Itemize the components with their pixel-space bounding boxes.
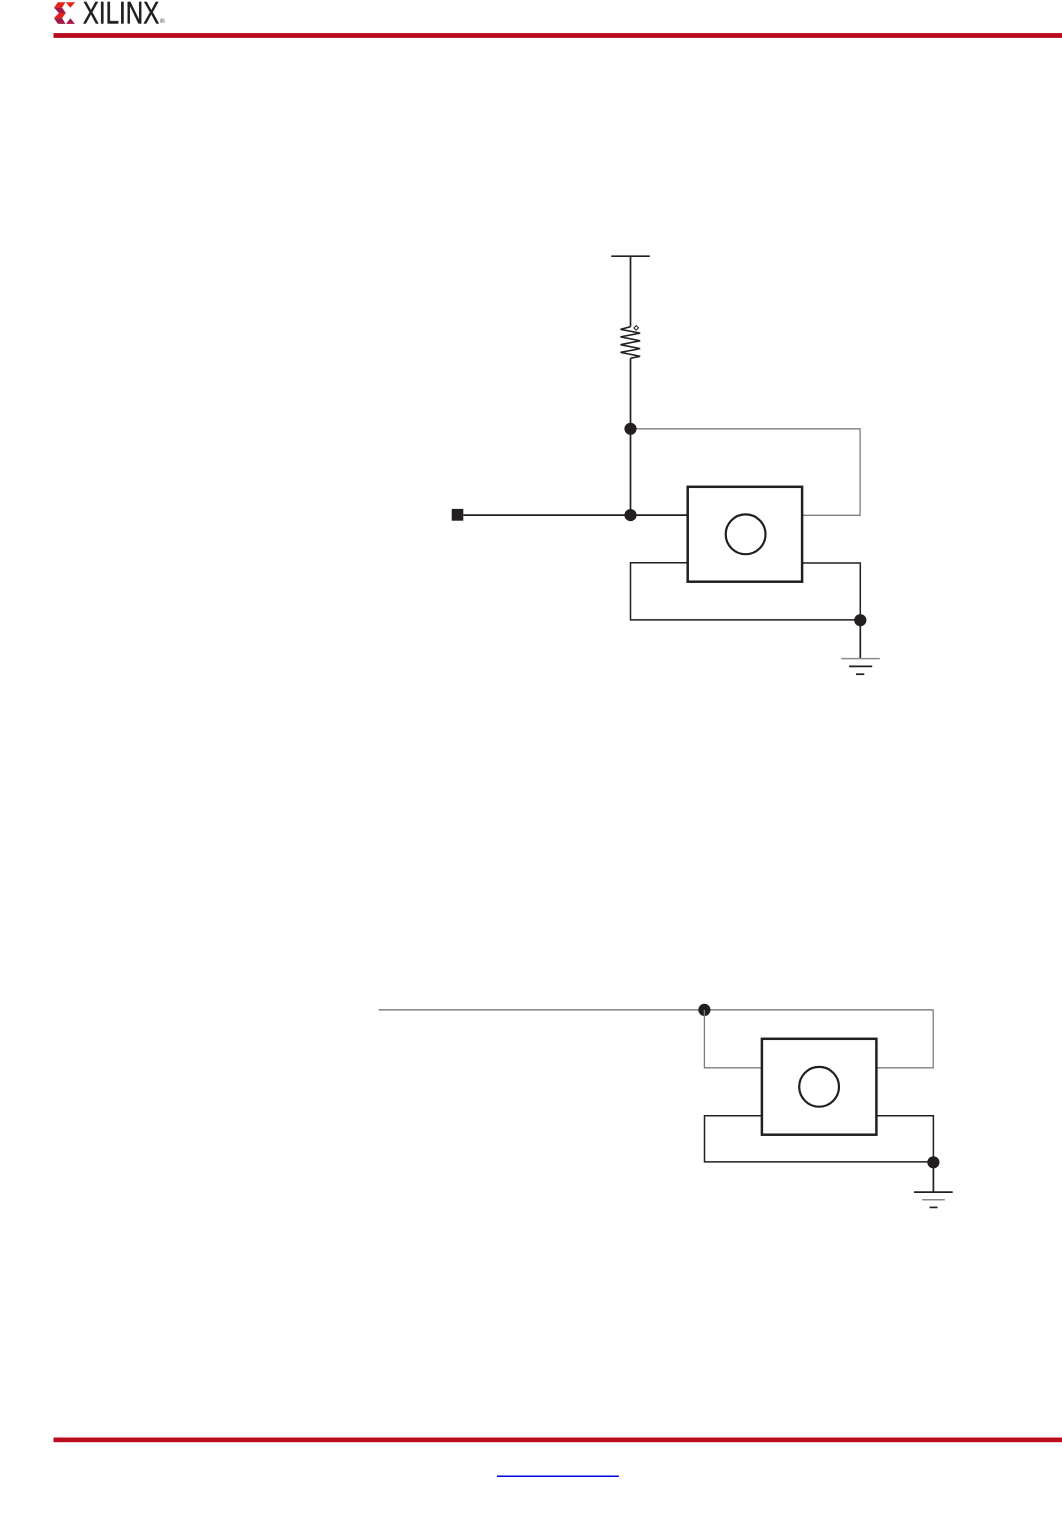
junction node dot (resistor / feedback) [624,423,636,435]
ground bar 3 (circuit 1) [856,673,864,675]
header rule [54,33,1062,38]
output wire lower-right segment (circuit 1) [802,563,860,620]
power rail VCC (circuit 1) [611,255,650,257]
junction node dot (input net) [624,509,636,521]
Xilinx wordmark text [83,2,158,24]
resistor (pull-up) [621,327,641,359]
ground stem (circuit 1) [859,620,861,658]
junction node dot (ground net, circuit 2) [927,1156,939,1168]
input wire [463,514,687,516]
wire resistor to input node [630,358,632,515]
feedback wire right loop (circuit 2) [876,1010,933,1068]
output wire lower-left loop (circuit 2) [705,1116,934,1162]
feedback wire top loop (circuit 1) [631,429,861,516]
Xilinx logo glyph band 2 (dark crimson) [54,8,66,13]
ground bar 1 (circuit 2) [914,1191,953,1193]
ground bar 3 (circuit 2) [930,1206,938,1208]
footer rule [54,1438,1062,1443]
ground stem (circuit 2) [932,1162,934,1192]
Xilinx logo glyph band 3 (red) [54,13,66,18]
registered trademark symbol [160,18,165,23]
wire input drop to cell left pin (circuit 2) [704,1010,762,1068]
input pad terminal (square) [452,509,464,521]
input wire (circuit 2) [379,1009,934,1011]
wire rail to resistor [630,256,632,327]
buffer cell box (circuit 1) [688,487,802,582]
junction node dot (input net, circuit 2) [698,1004,710,1016]
output wire lower-left loop (circuit 1) [631,563,861,620]
buffer cell circle symbol (circuit 2) [799,1067,839,1107]
buffer cell circle symbol (circuit 1) [726,514,766,554]
output wire lower-right segment (circuit 2) [876,1116,933,1162]
junction node dot (ground net, circuit 1) [854,614,866,626]
resistor property diamond marker [634,326,639,331]
Xilinx logo glyph bottom-right triangle (dark crimson) [66,18,75,24]
Xilinx logo glyph band 4 (dark crimson) [54,18,66,24]
ground bar 2 (circuit 1) [849,665,872,667]
buffer cell box (circuit 2) [762,1039,877,1135]
Xilinx logo glyph top-right triangle (red) [66,2,75,8]
footer hyperlink underline [497,1475,619,1477]
ground bar 1 (circuit 1) [841,658,880,660]
Xilinx logo glyph band 1 (red, top-left) [54,2,66,7]
ground bar 2 (circuit 2) [922,1199,945,1201]
